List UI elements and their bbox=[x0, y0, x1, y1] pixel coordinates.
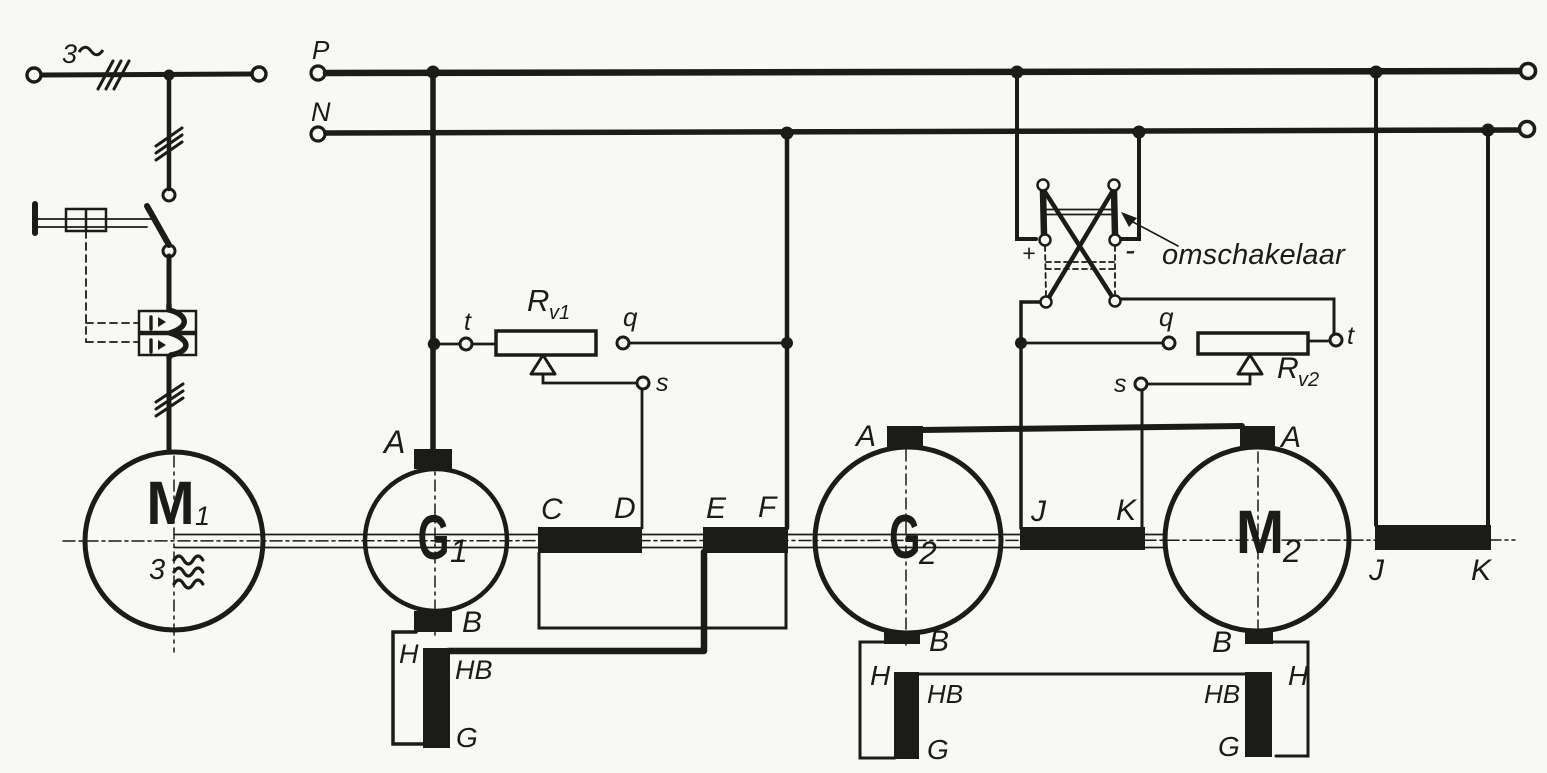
bus P terminal left bbox=[311, 66, 325, 80]
svg-text:HB: HB bbox=[1204, 679, 1240, 709]
junction N / switch bbox=[1133, 126, 1146, 139]
G2 field bracket wire bbox=[860, 642, 895, 758]
rheostat Rv1 bbox=[496, 331, 596, 355]
wire s down to D bbox=[641, 389, 644, 528]
terminal q left bbox=[617, 337, 629, 349]
switch handle bar bbox=[32, 204, 38, 233]
svg-text:K: K bbox=[1116, 494, 1138, 527]
svg-text:P: P bbox=[312, 35, 330, 65]
svg-text:2: 2 bbox=[1282, 533, 1301, 569]
Rv1 wiper bbox=[531, 355, 555, 374]
G2 brush B bbox=[884, 631, 920, 644]
switch blade bbox=[147, 206, 169, 245]
omschakelaar contact bottom right bbox=[1110, 296, 1121, 307]
shaft line lower bbox=[174, 547, 1166, 549]
junction t tap bbox=[428, 338, 440, 350]
wire switch to relay bbox=[167, 256, 172, 308]
switch linkage box bbox=[66, 209, 106, 231]
wire switch to J (G2) bbox=[1021, 302, 1040, 528]
svg-text:H: H bbox=[1288, 660, 1309, 691]
svg-text:t: t bbox=[464, 308, 472, 336]
M2 brush B bbox=[1245, 629, 1273, 644]
svg-text:G: G bbox=[889, 503, 920, 572]
series winding E-F bbox=[703, 527, 788, 553]
wire bus N to switch bbox=[1121, 132, 1139, 239]
svg-text:t: t bbox=[1347, 322, 1355, 350]
svg-text:HB: HB bbox=[927, 679, 963, 709]
svg-text:3: 3 bbox=[149, 554, 165, 586]
wire t to Rv1 bbox=[473, 343, 496, 346]
svg-text:G: G bbox=[927, 734, 949, 765]
svg-text:M: M bbox=[1236, 498, 1284, 567]
M2 field bracket wire bbox=[1272, 642, 1308, 756]
trip linkage dashed bbox=[86, 231, 139, 342]
svg-text:E: E bbox=[706, 492, 727, 525]
G2 series winding J-K bbox=[1020, 527, 1145, 550]
wire wiper to s bbox=[543, 374, 636, 383]
svg-text:J: J bbox=[1030, 495, 1047, 528]
svg-text:1: 1 bbox=[195, 501, 210, 531]
wire q to N-drop bbox=[629, 342, 787, 345]
wire 3-phase feed bbox=[42, 74, 251, 75]
bus P bbox=[326, 71, 1519, 73]
generator G1 bbox=[365, 469, 507, 611]
motor M2 bbox=[1165, 447, 1349, 631]
terminal s left bbox=[637, 377, 649, 389]
terminal switch top bbox=[163, 189, 175, 201]
shaft line upper bbox=[174, 534, 1166, 536]
M2 series winding J-K bbox=[1375, 525, 1491, 550]
omschakelaar blade right bbox=[1114, 191, 1115, 235]
overload relay boxes bbox=[139, 311, 196, 355]
svg-text:2: 2 bbox=[918, 535, 937, 571]
svg-text:R: R bbox=[1277, 352, 1299, 385]
series winding C-D bbox=[538, 527, 642, 553]
arrow to omschakelaar bbox=[1133, 222, 1178, 246]
svg-text:v1: v1 bbox=[549, 302, 570, 324]
wire K to bus N bbox=[1486, 130, 1490, 525]
omschakelaar contact bottom left bbox=[1041, 297, 1052, 308]
junction q tap right bbox=[1015, 337, 1027, 349]
generator G2 bbox=[815, 447, 1001, 633]
svg-text:A: A bbox=[1279, 421, 1301, 454]
junction N / K-wire bbox=[1482, 124, 1495, 137]
terminal (3-phase feed right) bbox=[252, 67, 266, 81]
three-phase slash marks on feed bbox=[98, 61, 129, 89]
svg-text:q: q bbox=[623, 302, 638, 332]
three-phase slash marks above M1 bbox=[156, 384, 183, 416]
svg-text:D: D bbox=[614, 492, 636, 525]
M2 shunt field winding H-G bbox=[1245, 672, 1272, 757]
G2 brush A bbox=[887, 426, 923, 447]
wire G1 armature A to bus P bbox=[430, 72, 436, 450]
M2 vertical centerline bbox=[1257, 452, 1259, 640]
svg-text:K: K bbox=[1471, 554, 1493, 587]
overload relay current symbols bbox=[151, 317, 166, 352]
horizontal centerline (shaft axis) bbox=[63, 540, 1515, 541]
svg-text:HB: HB bbox=[455, 655, 493, 685]
omschakelaar cross wire 1 bbox=[1045, 192, 1113, 298]
junction N / F-wire bbox=[781, 127, 794, 140]
svg-text:G: G bbox=[1218, 731, 1240, 762]
junction P / switch bbox=[1011, 66, 1024, 79]
omschakelaar contact top right bbox=[1109, 180, 1120, 191]
svg-text:s: s bbox=[1114, 370, 1127, 398]
M1 vertical centerline bbox=[173, 456, 175, 652]
svg-text:omschakelaar: omschakelaar bbox=[1162, 239, 1346, 271]
omschakelaar coupling bar bbox=[1047, 209, 1112, 211]
svg-text:v2: v2 bbox=[1298, 369, 1319, 391]
three-phase slash marks on drop bbox=[156, 128, 182, 160]
relay heater zigzag bbox=[169, 305, 186, 358]
wire G2 HB to M2 HB bbox=[919, 673, 1247, 676]
junction feed tee bbox=[164, 70, 175, 81]
svg-text:G: G bbox=[456, 722, 478, 753]
G2 shunt field winding H-G bbox=[894, 672, 919, 759]
svg-text:1: 1 bbox=[450, 533, 468, 569]
wire s to K (G2) bbox=[1141, 390, 1144, 528]
terminal t right bbox=[1330, 334, 1342, 346]
svg-text:A: A bbox=[382, 424, 405, 460]
wire loop C to F bbox=[539, 553, 786, 628]
wire switch to t right bbox=[1121, 299, 1334, 334]
terminal (3-phase feed left) bbox=[27, 68, 41, 82]
terminal q right bbox=[1163, 337, 1175, 349]
terminal switch bottom bbox=[163, 245, 175, 257]
svg-text:A: A bbox=[854, 420, 876, 453]
omschakelaar contact mid right bbox=[1110, 235, 1121, 246]
svg-text:-: - bbox=[1125, 234, 1135, 267]
switch linkage rod upper bbox=[38, 218, 151, 220]
junction q tap bbox=[781, 337, 793, 349]
wire t to Rv2 bbox=[1308, 340, 1330, 343]
svg-text:s: s bbox=[656, 369, 669, 397]
M2 brush A bbox=[1240, 426, 1275, 448]
wire to t bbox=[434, 343, 459, 346]
omschakelaar contact mid left bbox=[1040, 235, 1051, 246]
wire bus P to switch bbox=[1017, 72, 1036, 239]
bus N bbox=[326, 130, 1518, 133]
svg-text:H: H bbox=[870, 660, 891, 691]
svg-text:B: B bbox=[1212, 626, 1232, 659]
G1 shunt field winding H-G bbox=[423, 648, 450, 748]
svg-text:N: N bbox=[311, 97, 331, 127]
wire G1 HB to E bbox=[448, 552, 704, 651]
svg-text:H: H bbox=[399, 639, 419, 669]
junction P / J-wire bbox=[1370, 66, 1383, 79]
svg-text:J: J bbox=[1368, 554, 1385, 587]
svg-text:3: 3 bbox=[62, 39, 77, 69]
wire G2 A to M2 A bbox=[921, 426, 1242, 430]
motor M1 bbox=[85, 452, 263, 630]
wire wiper to s right bbox=[1147, 374, 1250, 384]
G1 brush A bbox=[414, 449, 452, 469]
svg-text:G: G bbox=[418, 503, 450, 573]
wire to q right bbox=[1021, 342, 1163, 345]
omschakelaar contact top left bbox=[1038, 180, 1049, 191]
AC wave symbol in M1 bbox=[174, 556, 203, 588]
bus P terminal right bbox=[1521, 64, 1536, 79]
rheostat Rv2 bbox=[1198, 333, 1308, 354]
svg-text:+: + bbox=[1022, 240, 1035, 266]
G2 vertical centerline bbox=[905, 450, 907, 645]
svg-text:M: M bbox=[146, 469, 194, 538]
svg-text:q: q bbox=[1159, 302, 1174, 332]
svg-text:R: R bbox=[527, 283, 549, 318]
omschakelaar dashed linkage bbox=[1045, 246, 1115, 296]
Rv2 wiper bbox=[1238, 355, 1262, 374]
switch linkage rod lower bbox=[38, 226, 147, 228]
wire F to bus N bbox=[785, 133, 790, 528]
omschakelaar blade left bbox=[1043, 191, 1044, 235]
terminal s right bbox=[1135, 378, 1147, 390]
bus N terminal right bbox=[1520, 122, 1535, 137]
svg-text:F: F bbox=[758, 491, 778, 524]
G1 brush B bbox=[414, 611, 452, 632]
wire feed drop bbox=[167, 75, 172, 189]
G1 field bracket wire bbox=[393, 632, 424, 744]
wire relay to motor M1 bbox=[167, 356, 172, 452]
junction P / A-wire bbox=[427, 66, 440, 79]
svg-text:B: B bbox=[462, 606, 482, 639]
wire J to bus P bbox=[1374, 72, 1378, 525]
terminal t left bbox=[460, 338, 472, 350]
omschakelaar cross wire 2 bbox=[1048, 192, 1112, 299]
G1 vertical centerline bbox=[434, 456, 436, 637]
svg-text:B: B bbox=[929, 625, 949, 658]
svg-text:C: C bbox=[541, 493, 563, 526]
bus N terminal left bbox=[311, 127, 325, 141]
